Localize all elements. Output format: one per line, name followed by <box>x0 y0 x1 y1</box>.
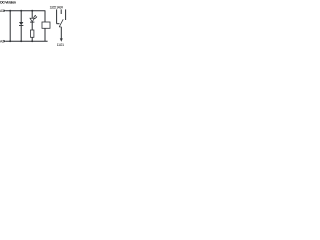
arrow terminal 11 <box>60 38 63 41</box>
wire LED to resistor <box>31 22 33 30</box>
wire coil return <box>44 28 46 41</box>
wire resistor to rail <box>31 37 33 41</box>
node bottom 3 <box>31 40 33 42</box>
wire LED branch top <box>31 11 33 19</box>
node top 3 <box>31 10 33 12</box>
wire common 11 <box>60 27 62 39</box>
terminal A2 <box>4 40 7 43</box>
contact 14 <box>65 9 67 20</box>
node bottom 2 <box>20 40 22 42</box>
relay coil K1 <box>42 22 50 28</box>
contact blade <box>59 19 63 27</box>
contact 12 <box>56 9 58 23</box>
wire branch 1 <box>9 11 11 42</box>
node top 2 <box>20 10 22 12</box>
wire diode branch bottom <box>20 26 22 42</box>
node top 1 <box>9 10 11 12</box>
svg-text:A1: A1 <box>0 9 4 13</box>
wire top rail A1 <box>6 10 45 12</box>
wire coil feed <box>44 11 46 22</box>
resistor R1 <box>31 30 34 37</box>
svg-text:A2: A2 <box>0 40 4 44</box>
wire diode branch top <box>20 11 22 22</box>
svg-text:DC-Version: DC-Version <box>0 1 16 5</box>
contact 11 stub <box>60 9 62 14</box>
LED D1 <box>30 18 34 21</box>
wire bottom rail A2 <box>6 40 48 42</box>
terminal A1 <box>4 9 7 12</box>
diode V1 <box>19 22 23 25</box>
svg-text:12/22 14/24: 12/22 14/24 <box>50 5 64 9</box>
node bottom 1 <box>9 40 11 42</box>
svg-text:11/21: 11/21 <box>57 43 64 47</box>
